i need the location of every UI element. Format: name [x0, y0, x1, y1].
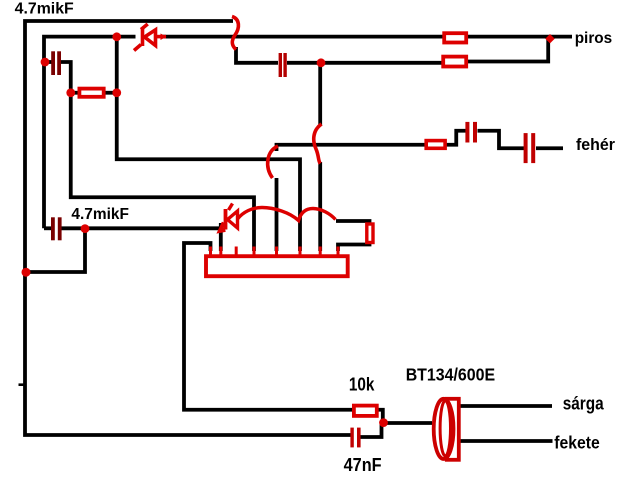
wire 10k right hook down to gate node [378, 410, 383, 423]
wire piros upper line right of diac to label [163, 35, 573, 39]
svg-text:47nF: 47nF [344, 455, 382, 475]
diac D1 top-left [134, 24, 166, 51]
svg-text:fehér: fehér [576, 135, 615, 154]
wire R1 left dot to resistor body [71, 91, 78, 95]
wire cap2 right plate to diode D2 cathode [62, 226, 220, 230]
junction dot gate node [379, 418, 388, 427]
wire vertical x=320.2 from junction dot down to hop [318, 63, 322, 126]
wire vertical x=320.2 below hop to transformer pin [318, 162, 322, 251]
wire R-bot right rising to piros node [467, 37, 548, 62]
capacitor C4 fehér upper [465, 122, 477, 143]
wire top-left loop: y=21 top line, x=25 left rail, y=435 bottom rail [25, 21, 351, 435]
capacitor C5 fehér lower [524, 133, 536, 163]
wire cap1 left plate to x=44 rail [44, 60, 52, 64]
wire gate node to triac [384, 421, 433, 425]
wire transformer left pin x=210.5 up, left to x=184, down to 10k resistor [184, 243, 353, 410]
wire piros upper line y=36.6 with corner down at x=44 [44, 37, 136, 229]
wire x=116.75 vertical through R1 right junction, corner y=159.25, down x=300 to transformer [117, 37, 300, 251]
wire transformer right: winding end to terminal loop back to pin x=338 [336, 221, 370, 251]
svg-text:10k: 10k [349, 374, 375, 394]
capacitor C6 47nF [350, 428, 360, 448]
wire fehér line jog down through cap4 [478, 131, 525, 149]
resistor R5 10k [354, 406, 377, 416]
wire cap-mid right to R-bot [287, 61, 442, 65]
hop of x=276.5 over y=159.25 line [268, 146, 278, 178]
svg-text:fekete: fekete [554, 432, 600, 452]
resistor R4 fehér [426, 141, 445, 149]
svg-text:4.7mikF: 4.7mikF [71, 206, 128, 223]
junction dot cap1 left [41, 58, 50, 67]
terminal small rect on transformer right wire [367, 224, 373, 243]
triac BT134 body [434, 399, 459, 460]
diode D2 top whisker [229, 204, 233, 211]
wire fehér line cap4 to label [536, 146, 563, 150]
svg-text:piros: piros [575, 30, 613, 47]
wire fehér line: transformer pin x=276.5 up (below hop) [275, 178, 279, 251]
wire small nub on left rail [19, 383, 26, 386]
resistor R1 left [79, 89, 103, 97]
hop (no-connect jump) of x=236 over piros upper line [232, 17, 238, 50]
wire 47nF right plate up to gate node [361, 424, 382, 437]
wire fehér line: above hop, corner at y=144.75 rightward to resistor [277, 145, 426, 151]
diode D2 at transformer: cathode bar [224, 209, 228, 230]
wire cap1 right plate to R1 left junction, down to y=197.25, right, down x=254 to transformer [61, 62, 254, 251]
wire triac to sárga [458, 404, 552, 408]
transformer bobbin body [206, 256, 348, 276]
capacitor C3 top-middle on piros lower line [279, 53, 287, 77]
junction dot R1 left [66, 88, 75, 97]
wire R1 right dot to resistor body [105, 91, 117, 95]
wire piros lower line y=61.5 from hop corner x=236 through cap to resistor [236, 47, 278, 63]
diac D1 arrow tip [161, 34, 167, 41]
wire cap2 left plate stub [44, 226, 51, 230]
wire triac to fekete [456, 439, 553, 443]
wire diode pin x=220.8 down to transformer [219, 223, 223, 251]
resistor R3 piros lower [443, 57, 466, 67]
svg-text:4.7mikF: 4.7mikF [15, 1, 74, 18]
transformer winding curve [238, 208, 336, 221]
junction dot top of x=116.75 [112, 32, 121, 41]
hop of x=320.2 over fehér line [314, 124, 322, 164]
capacitor C1 4.7mikF top-left (maroon plates) [51, 51, 61, 75]
svg-text:sárga: sárga [563, 394, 605, 414]
wire branch from node at x=85 down and left to left rail [25, 228, 85, 272]
resistor R2 piros upper [444, 33, 466, 42]
junction dot x=320.2 top [317, 58, 326, 67]
diode D2 triangle [228, 211, 238, 228]
junction dot piros node [545, 34, 554, 43]
diode D2 lower-left squiggle blob [220, 223, 225, 231]
transformer pin ticks (red) [211, 247, 339, 256]
capacitor C2 4.7mikF lower-left (maroon plates) [51, 217, 62, 240]
junction dot left rail y=271 [22, 268, 31, 277]
wire fehér line jog up through cap3 [446, 131, 466, 145]
junction dot R1 right [112, 88, 121, 97]
junction dot cap2 right node [81, 224, 90, 233]
svg-text:BT134/600E: BT134/600E [406, 364, 495, 384]
